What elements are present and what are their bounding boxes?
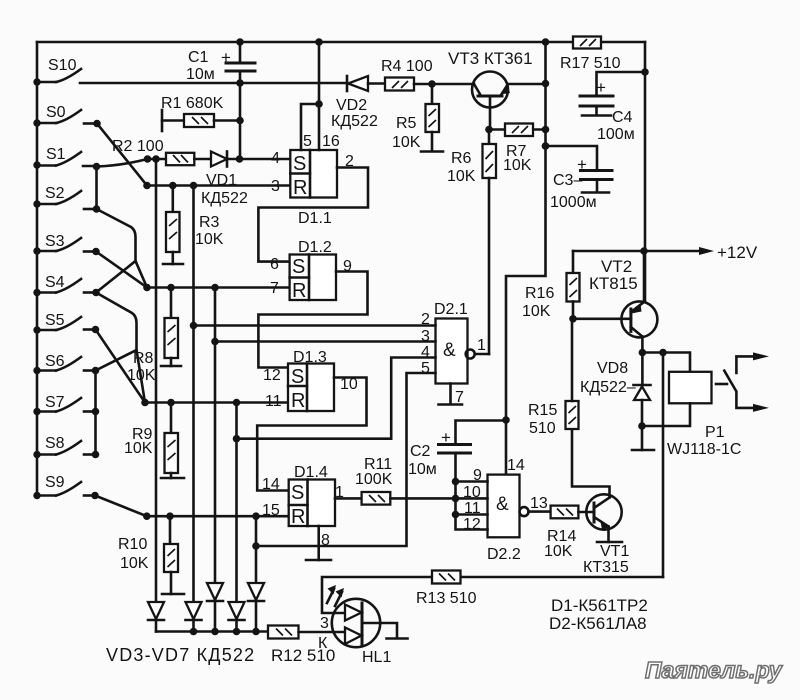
svg-text:VT1: VT1 xyxy=(600,543,629,560)
svg-text:11: 11 xyxy=(265,393,282,410)
wire R-line1 pin3 xyxy=(143,182,290,190)
diode VD1 xyxy=(201,152,248,208)
svg-text:VD3-VD7 КД522: VD3-VD7 КД522 xyxy=(106,645,255,665)
svg-text:&: & xyxy=(496,494,509,515)
resistor R13 xyxy=(416,571,477,608)
wire S4 bend path down to R-line3 xyxy=(96,293,145,403)
wire D2.1 output bubble xyxy=(466,337,489,359)
svg-text:D1-К561ТР2: D1-К561ТР2 xyxy=(551,596,648,615)
svg-text:6: 6 xyxy=(270,256,279,273)
svg-text:S6: S6 xyxy=(45,353,65,370)
svg-text:VD2: VD2 xyxy=(336,97,367,114)
svg-text:5: 5 xyxy=(303,133,312,150)
wire top +12V rail xyxy=(37,41,645,44)
wire D1.4 pin8 ground xyxy=(306,526,331,560)
svg-text:Паятель.ру: Паятель.ру xyxy=(645,657,783,683)
svg-text:13: 13 xyxy=(530,495,548,512)
svg-text:К: К xyxy=(318,635,328,652)
svg-text:C2: C2 xyxy=(410,443,431,460)
svg-text:10м: 10м xyxy=(408,461,437,478)
relay P1 coil xyxy=(642,372,741,458)
svg-text:КТ315: КТ315 xyxy=(583,559,629,576)
svg-text:1: 1 xyxy=(477,337,486,354)
svg-text:WJ118-1C: WJ118-1C xyxy=(667,441,741,458)
wire D2.1 pin4 feed xyxy=(233,358,436,443)
svg-text:R10: R10 xyxy=(118,536,147,553)
switch S6 xyxy=(33,353,99,374)
svg-text:100м: 100м xyxy=(597,126,635,143)
svg-text:D1.4: D1.4 xyxy=(294,464,328,481)
wire S5 to R-line3 xyxy=(96,330,146,403)
switch S8 xyxy=(33,435,99,458)
svg-text:+: + xyxy=(596,78,606,97)
svg-text:R8: R8 xyxy=(133,350,154,367)
trigger D1.3 xyxy=(263,349,334,412)
svg-text:&: & xyxy=(443,340,456,361)
resistor R9 xyxy=(124,403,184,479)
svg-text:R: R xyxy=(291,506,305,528)
wire D2.2 output bubble to R14 xyxy=(520,495,551,516)
svg-text:10K: 10K xyxy=(447,168,476,185)
svg-text:9: 9 xyxy=(343,258,352,275)
relay P1 contact xyxy=(716,352,769,412)
svg-text:100K: 100K xyxy=(355,471,393,488)
wire vertical VD5 feed from R-line2 xyxy=(214,288,217,584)
svg-text:10K: 10K xyxy=(544,543,573,560)
wire VT1 collector to R15 xyxy=(572,429,610,498)
svg-text:S3: S3 xyxy=(45,233,65,250)
svg-text:C4: C4 xyxy=(612,109,633,126)
wire R13 line to LED xyxy=(322,577,663,613)
node VT2 emitter xyxy=(639,349,690,372)
wire C1/R1/pin4 vertical x240 xyxy=(236,38,244,159)
wire D2.1 pin2 feed xyxy=(190,322,436,330)
gate D2.1 xyxy=(421,301,468,384)
svg-text:S0: S0 xyxy=(46,104,66,121)
svg-text:D2-К561ЛА8: D2-К561ЛА8 xyxy=(549,614,647,633)
svg-text:КД522: КД522 xyxy=(331,113,378,130)
switch S7 xyxy=(33,394,99,415)
wire R-line3 pin11 xyxy=(141,399,288,407)
resistor R15 xyxy=(528,319,579,437)
svg-text:КТ815: КТ815 xyxy=(589,274,638,293)
svg-text:S5: S5 xyxy=(45,312,65,329)
wire D2.1 pin3 feed xyxy=(211,338,435,346)
wire +12 branch x546 to D2 power xyxy=(502,38,549,474)
diode VD2 xyxy=(240,76,385,130)
switch S3 xyxy=(33,233,100,255)
svg-text:+: + xyxy=(441,428,451,447)
svg-text:10K: 10K xyxy=(503,157,532,174)
wire loop D1.2 out9 to D1.3 S xyxy=(258,258,367,368)
svg-text:VT3 КТ361: VT3 КТ361 xyxy=(448,49,533,68)
svg-text:S7: S7 xyxy=(45,394,65,411)
svg-text:S4: S4 xyxy=(45,274,65,291)
wire S2 bend path to R-line2 xyxy=(97,209,148,288)
wire S4 up to S2 bend xyxy=(96,261,136,293)
diode VD6 xyxy=(229,602,245,632)
svg-text:10: 10 xyxy=(340,376,358,393)
capacitor C3 xyxy=(542,142,612,211)
wire R2 to VD1 xyxy=(194,158,211,161)
svg-text:10K: 10K xyxy=(522,303,551,320)
resistor R17 xyxy=(560,37,621,73)
svg-text:R3: R3 xyxy=(199,214,220,231)
svg-text:D1.2: D1.2 xyxy=(298,239,332,256)
svg-text:+12V: +12V xyxy=(717,243,758,262)
svg-text:R13 510: R13 510 xyxy=(416,590,477,607)
svg-text:4: 4 xyxy=(271,150,280,167)
svg-text:1: 1 xyxy=(335,484,344,501)
svg-text:12: 12 xyxy=(263,367,281,384)
resistor R11 xyxy=(335,456,456,505)
svg-text:VD8: VD8 xyxy=(597,360,628,377)
resistor R14 xyxy=(544,506,594,560)
svg-text:7: 7 xyxy=(455,389,464,406)
svg-text:R15: R15 xyxy=(528,402,557,419)
wire S6 up to S4 bend xyxy=(96,350,137,371)
wire R-line2 pin7 xyxy=(143,284,289,292)
svg-text:S9: S9 xyxy=(45,474,65,491)
svg-text:S: S xyxy=(293,153,306,175)
wire S7-S8 link xyxy=(94,412,97,455)
wire D2.1 pin5 feed xyxy=(256,373,436,546)
resistor R4 xyxy=(381,58,474,91)
wire D1.1 pin16 to rail xyxy=(315,38,340,150)
capacitor C4 xyxy=(580,68,649,143)
svg-text:S8: S8 xyxy=(45,435,65,452)
wire right rail down from R17 corner xyxy=(644,42,647,302)
switch S2 xyxy=(33,185,100,213)
wire S3 to R-line2 xyxy=(96,252,147,288)
LED HL1 xyxy=(318,585,408,666)
wire R-line4 pin15 xyxy=(143,512,289,520)
resistor R6 xyxy=(447,130,496,355)
svg-text:10K: 10K xyxy=(120,555,149,572)
svg-text:10K: 10K xyxy=(392,134,421,151)
resistor R10 xyxy=(118,516,184,594)
svg-text:15: 15 xyxy=(262,502,280,519)
wire vertical VD4 feed from R-line1 xyxy=(192,186,195,603)
resistor R1 xyxy=(161,95,240,131)
svg-text:510: 510 xyxy=(529,420,556,437)
svg-text:S1: S1 xyxy=(46,146,66,163)
svg-text:S: S xyxy=(291,366,304,388)
svg-text:R: R xyxy=(293,177,307,199)
diode VD5 xyxy=(207,583,223,632)
svg-text:D2.1: D2.1 xyxy=(434,301,468,318)
resistor R8 xyxy=(127,288,181,385)
wire S1 to S-line pin4 xyxy=(97,159,148,167)
svg-text:3: 3 xyxy=(271,178,280,195)
svg-text:C1: C1 xyxy=(188,49,209,66)
resistor R5 xyxy=(392,84,443,152)
svg-text:R6: R6 xyxy=(451,150,472,167)
svg-text:P1: P1 xyxy=(705,424,725,441)
switch S9 xyxy=(33,474,99,499)
svg-text:R: R xyxy=(292,280,306,302)
svg-text:D1.1: D1.1 xyxy=(298,210,332,227)
wire loop D1.1 out2 to D1.2 S xyxy=(258,153,368,262)
svg-text:10K: 10K xyxy=(124,440,153,457)
wire S0 to R-line1 xyxy=(97,124,147,186)
svg-text:R4 100: R4 100 xyxy=(381,58,433,75)
wire D2.2 input chain from C2/R11 node xyxy=(452,478,488,530)
wire bottom bus xyxy=(156,628,268,636)
svg-text:10K: 10K xyxy=(127,367,156,384)
ground D2.1 pin7 xyxy=(439,384,465,407)
svg-text:R5: R5 xyxy=(396,115,417,132)
capacitor C2 xyxy=(408,421,506,482)
svg-text:16: 16 xyxy=(322,133,340,150)
wire vertical VD7 feed from R-line4 xyxy=(255,516,258,583)
switch S4 xyxy=(33,274,100,296)
svg-text:C3–: C3– xyxy=(553,172,582,189)
diode VD7 xyxy=(248,583,264,632)
wire VD1 to D1.1 pin4 xyxy=(227,155,290,163)
svg-text:S: S xyxy=(291,482,304,504)
svg-text:5: 5 xyxy=(421,360,430,377)
resistor R3 xyxy=(163,186,224,265)
node S-line pin4 y159 xyxy=(144,155,166,163)
node pin5 feed dot on VD7 line xyxy=(252,542,260,550)
svg-text:2: 2 xyxy=(345,153,354,170)
svg-text:R: R xyxy=(291,390,305,412)
svg-text:КД522: КД522 xyxy=(201,190,248,207)
trigger D1.4 xyxy=(262,464,335,528)
wire S6-S7 link xyxy=(94,371,97,412)
switch S0 xyxy=(33,104,101,127)
wire S1-S2 link xyxy=(95,167,98,210)
wire S9 to R-line4 xyxy=(95,496,147,517)
resistor R2 xyxy=(112,138,194,165)
wire left switch bus xyxy=(36,42,39,496)
wire loop D1.3 out10 to D1.4 S xyxy=(257,376,366,491)
svg-text:3: 3 xyxy=(320,615,329,632)
svg-text:7: 7 xyxy=(270,280,279,297)
wire vertical VD3 feed from pin4 line xyxy=(155,159,158,602)
trigger D1.1 xyxy=(271,150,337,227)
diode VD4 xyxy=(186,602,202,632)
svg-text:R1 680K: R1 680K xyxy=(161,95,224,112)
wire D1.1 pin5 bracket xyxy=(301,100,323,150)
diode VD8 xyxy=(580,353,654,451)
svg-text:HL1: HL1 xyxy=(362,649,391,666)
resistor R16 xyxy=(522,251,580,323)
svg-text:14: 14 xyxy=(262,476,280,493)
svg-text:+: + xyxy=(221,48,231,67)
svg-text:D2.2: D2.2 xyxy=(487,546,521,563)
node VT3 base/R6/R7 xyxy=(485,126,493,134)
transistor VT2 xyxy=(573,251,657,353)
gate D2.2 xyxy=(463,457,525,563)
svg-text:S2: S2 xyxy=(45,185,65,202)
transistor VT3 xyxy=(448,49,546,130)
wire VT1 collector riser to VT2 emitter node xyxy=(662,353,665,578)
svg-text:D1.3: D1.3 xyxy=(293,349,327,366)
svg-text:R16: R16 xyxy=(525,285,554,302)
svg-text:10м: 10м xyxy=(186,66,215,83)
wire +12V arrow xyxy=(573,243,758,262)
resistor R7 xyxy=(489,124,546,175)
switch S1 xyxy=(33,146,100,170)
trigger D1.2 xyxy=(270,239,336,302)
resistor R12 xyxy=(268,626,345,666)
svg-text:R2 100: R2 100 xyxy=(112,138,164,155)
svg-text:R17 510: R17 510 xyxy=(560,55,621,72)
wire vertical VD6 feed from R-line3 xyxy=(235,403,238,603)
svg-text:1000м: 1000м xyxy=(550,194,597,211)
diode VD3 xyxy=(148,602,164,632)
svg-text:КД522–: КД522– xyxy=(580,379,636,396)
switch S5 xyxy=(33,312,99,334)
svg-text:10K: 10K xyxy=(195,231,224,248)
svg-text:S: S xyxy=(292,256,305,278)
capacitor C1 xyxy=(186,48,255,83)
transistor VT1 xyxy=(583,494,629,576)
label IC types xyxy=(549,596,648,633)
svg-text:S10: S10 xyxy=(48,57,77,74)
svg-text:14: 14 xyxy=(507,457,525,474)
switch S10 xyxy=(33,57,240,86)
